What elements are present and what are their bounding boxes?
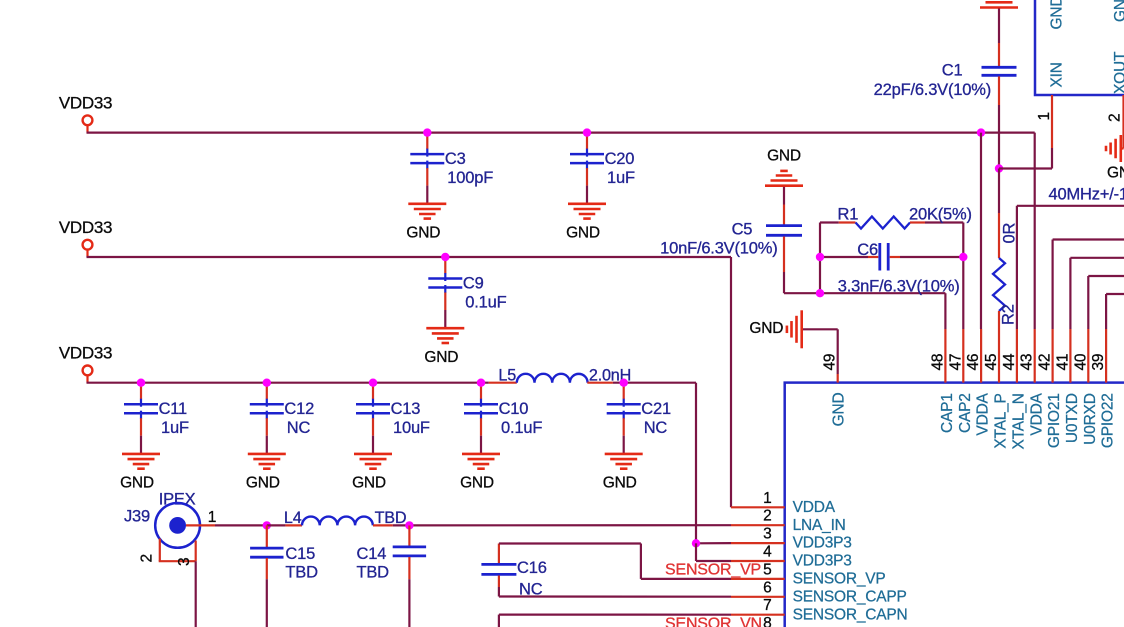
- svg-text:0.1uF: 0.1uF: [465, 294, 506, 312]
- svg-text:45: 45: [983, 354, 1000, 371]
- wire rail 2 down to pin 1 VDDA: [730, 257, 732, 507]
- wire 40MHz down to pin 44 XTAL_N: [1016, 206, 1018, 329]
- pin 39 GPIO22: [1105, 329, 1107, 383]
- wire C1 bottom lead: [998, 76, 1000, 105]
- svg-text:GND: GND: [406, 225, 440, 242]
- svg-text:1uF: 1uF: [607, 169, 635, 187]
- ground below C11: [122, 453, 160, 456]
- J39 pins 2 and 3 ground: [159, 539, 161, 562]
- wire VDD33 rail 3: [87, 382, 489, 384]
- svg-text:GND: GND: [352, 475, 386, 492]
- wire CAP1 bus horizontal: [784, 292, 945, 294]
- wire osc pin1 to XIN node: [999, 167, 1052, 169]
- svg-text:VDDA: VDDA: [793, 499, 836, 516]
- capacitor C14: [408, 525, 410, 546]
- svg-text:NC: NC: [287, 419, 311, 437]
- inductor L4: [285, 524, 302, 526]
- ground below C13: [354, 453, 392, 456]
- svg-text:1: 1: [208, 509, 216, 526]
- svg-text:1uF: 1uF: [161, 419, 189, 437]
- svg-text:C9: C9: [463, 274, 484, 292]
- svg-text:R1: R1: [838, 206, 859, 224]
- svg-text:C11: C11: [159, 400, 187, 418]
- svg-text:5: 5: [763, 561, 771, 578]
- svg-text:8: 8: [763, 615, 771, 627]
- svg-text:C6: C6: [857, 241, 878, 259]
- capacitor C10: [480, 383, 482, 400]
- node junction C9 on rail 2: [441, 253, 449, 261]
- svg-text:LNA_IN: LNA_IN: [793, 517, 846, 534]
- node junction C20 on rail 1: [583, 128, 591, 136]
- svg-text:C20: C20: [605, 150, 635, 168]
- ground below C10: [462, 453, 500, 456]
- svg-text:7: 7: [763, 597, 771, 614]
- wire C13 to ground: [372, 436, 374, 454]
- pin 6 SENSOR_CAPP: [731, 596, 785, 598]
- node junction C11: [137, 379, 145, 387]
- wire U0TXD net: [1070, 257, 1124, 259]
- svg-text:44: 44: [1001, 353, 1018, 370]
- ground below C3: [408, 203, 446, 206]
- wire VDD33 rail 1: [87, 132, 982, 134]
- pin 41 U0TXD: [1069, 329, 1071, 383]
- svg-text:46: 46: [965, 354, 982, 371]
- svg-text:U0RXD: U0RXD: [1082, 393, 1099, 445]
- node junction C6 left: [816, 253, 824, 261]
- pin 44 XTAL_N: [1016, 329, 1018, 383]
- wire R1 left node vertical: [819, 223, 821, 294]
- inductor L5: [489, 382, 517, 384]
- svg-text:48: 48: [929, 354, 946, 371]
- pin 43 VDDA: [1034, 329, 1036, 383]
- capacitor C16: [498, 544, 500, 564]
- wire pin 7 SENSOR_CAPN: [499, 613, 731, 615]
- svg-text:3.3nF/6.3V(10%): 3.3nF/6.3V(10%): [838, 277, 960, 295]
- svg-text:GND: GND: [1049, 0, 1066, 30]
- svg-text:3: 3: [763, 526, 771, 543]
- wire J39 shield down: [195, 561, 197, 627]
- wire XOUT 40MHz net: [1017, 205, 1124, 207]
- svg-text:GND: GND: [120, 475, 154, 492]
- svg-text:C14: C14: [357, 545, 387, 563]
- ground above C1: [980, 6, 1018, 9]
- wire gnd to C1: [998, 9, 1000, 44]
- svg-text:XIN: XIN: [1049, 62, 1066, 87]
- svg-text:NC: NC: [644, 419, 668, 437]
- svg-text:100pF: 100pF: [447, 169, 493, 187]
- svg-text:40: 40: [1072, 353, 1089, 370]
- svg-text:0R: 0R: [1001, 223, 1019, 244]
- wire down to pin 43 VDDA: [1034, 133, 1036, 329]
- svg-text:2: 2: [1107, 114, 1124, 122]
- oscillator pin 2: [1122, 95, 1124, 149]
- ground below C12: [248, 453, 286, 456]
- svg-text:47: 47: [947, 354, 964, 371]
- pin 40 U0RXD: [1087, 329, 1089, 383]
- svg-text:C5: C5: [732, 221, 753, 239]
- wire L5 to corner: [613, 382, 696, 384]
- pin 42 GPIO21: [1051, 329, 1053, 383]
- wire C5 to CAP1 bus: [783, 272, 785, 293]
- wire C1 to XIN node: [998, 105, 1000, 169]
- ground below C9: [426, 327, 464, 330]
- pin 46 VDDA: [980, 329, 982, 383]
- svg-text:C16: C16: [517, 559, 547, 577]
- resistor R2 0R: [998, 169, 1000, 214]
- svg-text:GPIO22: GPIO22: [1100, 393, 1117, 448]
- svg-text:VDD33: VDD33: [59, 344, 112, 363]
- svg-text:R2: R2: [1000, 304, 1018, 325]
- node junction C10: [477, 379, 485, 387]
- wire C12 to ground: [266, 436, 268, 454]
- svg-text:22pF/6.3V(10%): 22pF/6.3V(10%): [874, 81, 991, 99]
- pin 2 LNA_IN: [731, 524, 785, 526]
- svg-text:VDDA: VDDA: [1028, 392, 1045, 435]
- svg-text:C3: C3: [445, 150, 466, 168]
- pin 3 VDD3P3: [731, 542, 785, 544]
- wire C14 down: [408, 579, 410, 627]
- svg-text:TBD: TBD: [285, 564, 318, 582]
- svg-text:6: 6: [763, 579, 771, 596]
- wire C5 bottom lead: [783, 237, 785, 273]
- svg-text:1: 1: [763, 490, 771, 507]
- oscillator pin 1: [1051, 95, 1053, 148]
- capacitor C12: [266, 383, 268, 400]
- node junction C12: [263, 379, 271, 387]
- ground at pin 49: [800, 310, 803, 348]
- svg-text:XTAL_P: XTAL_P: [993, 393, 1010, 448]
- svg-text:TBD: TBD: [357, 564, 390, 582]
- svg-text:U0TXD: U0TXD: [1064, 393, 1081, 443]
- pin 45 XTAL_P: [998, 329, 1000, 383]
- svg-text:42: 42: [1037, 354, 1054, 371]
- wire gnd to C5: [783, 187, 785, 205]
- node junction CAP1 bus: [816, 289, 824, 297]
- svg-text:VDD3P3: VDD3P3: [793, 553, 852, 570]
- node junction C21: [620, 379, 628, 387]
- svg-text:VDD3P3: VDD3P3: [793, 535, 852, 552]
- capacitor C13: [372, 383, 374, 400]
- svg-text:20K(5%): 20K(5%): [909, 206, 972, 224]
- wire osc pin1 down: [1051, 148, 1053, 169]
- svg-text:4: 4: [763, 544, 772, 561]
- pin 7 SENSOR_CAPN: [731, 614, 785, 616]
- node junction rail1 / pin46 drop: [977, 128, 985, 136]
- svg-text:SENSOR_CAPN: SENSOR_CAPN: [793, 606, 908, 623]
- capacitor C5: [783, 205, 785, 225]
- svg-text:1: 1: [1036, 112, 1053, 120]
- capacitor C1: [998, 43, 1000, 66]
- node junction C13: [369, 379, 377, 387]
- svg-text:GND: GND: [424, 349, 458, 366]
- node junction C15/L4: [263, 521, 271, 529]
- capacitor C6: [820, 256, 868, 258]
- wire C20 to ground: [586, 186, 588, 204]
- wire C11 to ground: [140, 436, 142, 454]
- svg-text:SENSOR_VN: SENSOR_VN: [665, 615, 762, 627]
- wire to pin 3 VDD3P3: [696, 542, 731, 544]
- svg-text:39: 39: [1090, 354, 1107, 371]
- svg-text:2: 2: [139, 554, 156, 562]
- capacitor C3: [426, 133, 428, 150]
- node junction C6 right: [959, 253, 967, 261]
- svg-text:CAP2: CAP2: [957, 393, 974, 433]
- svg-text:SENSOR_CAPP: SENSOR_CAPP: [793, 588, 907, 605]
- svg-text:GND: GND: [460, 475, 494, 492]
- wire down to pin 46 VDDA: [980, 133, 982, 329]
- wire dot to L4: [267, 524, 286, 526]
- svg-text:GND: GND: [767, 148, 801, 165]
- wire GPIO21 net: [1053, 238, 1124, 240]
- resistor R1: [820, 221, 839, 223]
- svg-text:VDD33: VDD33: [59, 94, 112, 113]
- pin 1 VDDA: [731, 506, 785, 508]
- wire L4 to pin 2 LNA_IN: [393, 524, 731, 526]
- ground below C21: [605, 453, 643, 456]
- svg-text:L5: L5: [498, 367, 516, 385]
- oscillator U-box: [1035, 0, 1124, 95]
- wire R1 right node down to pin 47 CAP2: [962, 223, 964, 330]
- node junction VDD3P3: [692, 539, 700, 547]
- svg-text:CAP1: CAP1: [939, 393, 956, 433]
- svg-text:GPIO21: GPIO21: [1046, 393, 1063, 448]
- capacitor C11: [140, 383, 142, 400]
- ground at oscillator pin 2: [1120, 135, 1123, 162]
- svg-text:3: 3: [176, 558, 193, 566]
- svg-text:GND: GND: [246, 475, 280, 492]
- capacitor C20: [586, 133, 588, 150]
- svg-text:49: 49: [822, 354, 839, 371]
- svg-text:10uF: 10uF: [393, 419, 430, 437]
- node junction C14/L4: [405, 521, 413, 529]
- svg-text:C21: C21: [641, 400, 671, 418]
- svg-text:C1: C1: [942, 62, 963, 80]
- node junction XIN net: [995, 164, 1003, 172]
- svg-text:2: 2: [763, 508, 771, 525]
- svg-text:VDD33: VDD33: [59, 218, 112, 237]
- wire down to VDD3P3 node: [695, 383, 697, 544]
- wire C21 to ground: [623, 436, 625, 454]
- wire rail 1 to pin43 drop: [981, 132, 1035, 134]
- svg-text:GND: GND: [831, 392, 848, 426]
- ground below C20: [568, 203, 606, 206]
- wire C16 to pin 6: [498, 587, 500, 597]
- wire C3 to ground: [426, 186, 428, 204]
- wire U0RXD net: [1088, 275, 1124, 277]
- svg-text:XOUT: XOUT: [1112, 51, 1124, 94]
- op-amp U1 main IC box: [785, 383, 1124, 627]
- pin 5 SENSOR_VP: [731, 578, 785, 580]
- svg-text:GND: GND: [603, 475, 637, 492]
- svg-text:XTAL_N: XTAL_N: [1011, 393, 1028, 449]
- svg-text:10nF/6.3V(10%): 10nF/6.3V(10%): [660, 239, 777, 257]
- svg-text:C13: C13: [391, 400, 421, 418]
- svg-text:GND: GND: [566, 225, 600, 242]
- wire VDD33 rail 2: [87, 256, 732, 258]
- capacitor C15: [266, 525, 268, 547]
- pin 47 CAP2: [962, 329, 964, 383]
- J39 pin 1: [186, 524, 215, 526]
- svg-text:J39: J39: [124, 508, 150, 526]
- wire down to pin 48 CAP1: [944, 293, 946, 329]
- wire C16 to SENSOR_VP: [499, 542, 641, 544]
- svg-text:GND: GND: [1107, 165, 1124, 182]
- svg-text:SENSOR_VP: SENSOR_VP: [665, 561, 761, 578]
- svg-text:43: 43: [1019, 354, 1036, 371]
- wire J39 to L4: [215, 524, 267, 526]
- pin 4 VDD3P3: [731, 560, 785, 562]
- wire to pin 4 VDD3P3: [696, 560, 731, 562]
- pin 49 GND: [837, 374, 839, 383]
- svg-text:SENSOR_VP: SENSOR_VP: [793, 571, 886, 588]
- wire GPIO22 net: [1106, 293, 1124, 295]
- node junction C3 on rail 1: [423, 128, 431, 136]
- pin 48 CAP1: [944, 329, 946, 383]
- svg-text:L4: L4: [284, 509, 302, 527]
- capacitor C9: [444, 257, 446, 274]
- wire C15 down: [266, 579, 268, 627]
- wire C10 to ground: [480, 436, 482, 454]
- svg-text:C15: C15: [285, 545, 315, 563]
- svg-text:0.1uF: 0.1uF: [501, 419, 542, 437]
- svg-text:GND: GND: [749, 320, 783, 337]
- svg-text:41: 41: [1054, 354, 1071, 371]
- svg-text:40MHz+/-10ppm: 40MHz+/-10ppm: [1049, 186, 1124, 204]
- svg-text:C12: C12: [284, 400, 314, 418]
- capacitor C21: [623, 383, 625, 400]
- wire node down to pin 4: [695, 543, 697, 561]
- svg-text:GND: GND: [1112, 0, 1124, 22]
- svg-text:C10: C10: [499, 400, 529, 418]
- svg-text:VDDA: VDDA: [975, 392, 992, 435]
- wire C9 to ground: [444, 310, 446, 328]
